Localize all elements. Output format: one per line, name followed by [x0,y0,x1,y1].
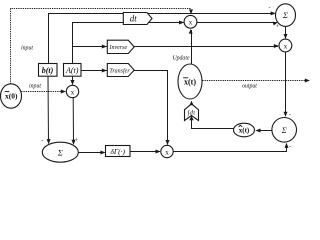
svg-text:δΓ(·): δΓ(·) [110,147,125,156]
svg-text:Update: Update [172,56,189,62]
svg-text:Σ: Σ [281,125,287,135]
svg-text:-: - [41,138,43,144]
svg-text:x(t): x(t) [239,127,250,135]
svg-text:A(t): A(t) [65,66,79,75]
svg-text:-: - [289,145,291,151]
svg-text:b(t): b(t) [42,66,54,75]
svg-text:output: output [242,84,257,90]
svg-text:x: x [284,42,288,50]
svg-text:x: x [189,19,193,27]
svg-text:-: - [269,5,271,11]
svg-text:x(t): x(t) [184,77,196,86]
svg-text:-: - [289,112,291,118]
svg-text:Inverse: Inverse [108,45,127,51]
svg-text:∫dτ: ∫dτ [187,110,196,117]
svg-text:x: x [165,148,169,156]
svg-text:Σ: Σ [282,10,288,20]
svg-text:input: input [29,83,41,89]
svg-text:x(0): x(0) [5,91,18,100]
svg-text:Transfer: Transfer [109,67,130,74]
svg-text:x: x [71,88,75,96]
svg-text:dt: dt [130,14,138,24]
svg-text:Σ: Σ [57,147,63,157]
svg-text:input: input [21,46,33,52]
